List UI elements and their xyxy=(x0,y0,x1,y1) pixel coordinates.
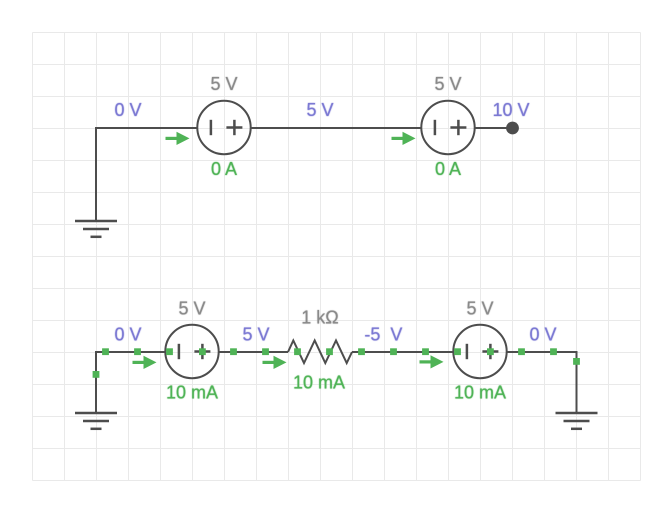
wire xyxy=(475,127,513,129)
svg-text:1 kΩ: 1 kΩ xyxy=(301,308,338,328)
svg-text:10 V: 10 V xyxy=(492,100,529,120)
node square xyxy=(294,348,301,355)
current arrow into V4 xyxy=(420,355,444,368)
node square xyxy=(573,358,580,365)
wire xyxy=(576,351,578,413)
ground xyxy=(75,221,117,237)
voltage source V2 xyxy=(421,101,474,154)
node square xyxy=(102,348,109,355)
current arrow into V2 xyxy=(392,132,416,145)
svg-text:10 mA: 10 mA xyxy=(293,373,345,393)
node square xyxy=(166,348,173,355)
node terminal dot xyxy=(506,122,519,135)
current arrow into R1 xyxy=(263,356,287,369)
node square xyxy=(358,348,365,355)
node square xyxy=(199,348,206,355)
svg-text:5 V: 5 V xyxy=(178,299,205,319)
svg-text:5 V: 5 V xyxy=(210,74,237,94)
voltage source V1 xyxy=(197,101,250,154)
wire xyxy=(219,351,288,353)
svg-text:0 A: 0 A xyxy=(435,159,461,179)
node square xyxy=(134,348,141,355)
wire xyxy=(95,351,97,413)
node square xyxy=(326,348,333,355)
svg-text:5 V: 5 V xyxy=(242,324,269,344)
current arrow into V3 xyxy=(133,356,157,369)
voltage source V4 xyxy=(453,325,506,378)
svg-text:10 mA: 10 mA xyxy=(454,383,506,403)
svg-text:0 A: 0 A xyxy=(211,159,237,179)
current arrow into V1 xyxy=(166,132,190,145)
ground xyxy=(556,413,598,429)
node square xyxy=(390,348,397,355)
wire xyxy=(95,127,97,221)
svg-text:5 V: 5 V xyxy=(306,100,333,120)
wire xyxy=(507,351,577,353)
voltage source V3 xyxy=(165,325,218,378)
node square xyxy=(422,348,429,355)
svg-text:5 V: 5 V xyxy=(466,299,493,319)
node square xyxy=(230,348,237,355)
node square xyxy=(550,348,557,355)
wire xyxy=(96,127,198,129)
svg-text:10 mA: 10 mA xyxy=(166,383,218,403)
ground xyxy=(75,413,117,429)
node square xyxy=(487,348,494,355)
node square xyxy=(454,348,461,355)
svg-text:0 V: 0 V xyxy=(529,324,556,344)
svg-text:-5 V: -5 V xyxy=(364,324,402,344)
node square xyxy=(518,348,525,355)
svg-text:0 V: 0 V xyxy=(114,324,141,344)
resistor R1 xyxy=(288,341,352,364)
wire xyxy=(352,351,453,353)
svg-text:0 V: 0 V xyxy=(114,100,141,120)
node square xyxy=(262,348,269,355)
wire xyxy=(96,351,166,353)
svg-text:5 V: 5 V xyxy=(434,74,461,94)
node square xyxy=(93,371,100,378)
wire xyxy=(251,127,422,129)
